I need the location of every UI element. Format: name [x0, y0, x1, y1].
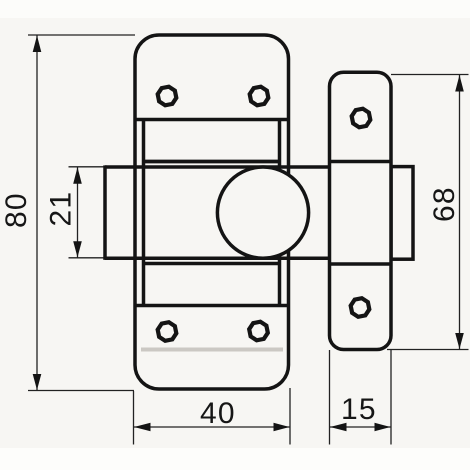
body bottom divider line — [135, 304, 289, 308]
screw hole body bottom-left — [156, 320, 178, 342]
dimension 15 line — [330, 426, 392, 428]
dimension 40 arrow left — [134, 423, 151, 432]
dimension 80 extension line top — [28, 34, 135, 36]
dimension 80 line — [36, 35, 38, 391]
channel rail bottom — [144, 262, 280, 266]
screw hole plate top — [350, 107, 372, 129]
dimension 21 arrow down — [73, 241, 82, 257]
dimension 40 arrow right — [274, 423, 290, 432]
svg-text:40: 40 — [200, 397, 236, 430]
lock body plate — [135, 35, 289, 389]
screw hole plate bottom — [349, 296, 371, 318]
dimension 15 extension line left — [329, 350, 331, 445]
dimension 68 line — [459, 75, 461, 350]
faint pressed band in bottom section — [141, 348, 283, 352]
strike plate rail top — [330, 160, 392, 164]
dimension 68 extension line bottom — [387, 349, 469, 351]
top white strip — [0, 0, 470, 18]
dimension 40 line — [134, 426, 291, 428]
bolt bottom edge — [105, 257, 330, 261]
bolt top edge — [105, 165, 330, 169]
bottom white strip — [0, 448, 470, 470]
dimension 40 extension line left — [133, 391, 135, 445]
strike plate — [330, 72, 392, 349]
dimension 15 arrow right — [375, 423, 391, 432]
dimension 80 extension line bottom — [28, 390, 134, 392]
dimension 80 arrow up — [33, 36, 42, 53]
inner panel left edge — [142, 120, 146, 306]
dimension 68 arrow up — [455, 75, 464, 92]
dimension 21 arrow up — [73, 167, 82, 184]
screw hole body top-right — [248, 85, 270, 107]
body top divider line — [135, 118, 289, 122]
svg-text:68: 68 — [428, 186, 461, 222]
strike plate rail bottom — [330, 262, 392, 266]
knob circle — [217, 167, 308, 258]
dimension 40 extension line right — [289, 388, 291, 445]
dimension 80 arrow down — [33, 374, 42, 390]
dimension 68 arrow down — [455, 333, 464, 349]
inner panel right edge — [278, 120, 282, 306]
bolt left end — [103, 165, 107, 260]
channel rail top redrawn over knob — [144, 160, 280, 164]
dimension 68 extension line top — [391, 74, 469, 76]
keeper box on strike plate — [391, 167, 413, 260]
dimension 15 extension line right — [390, 350, 392, 445]
dimension 15 arrow left — [330, 423, 347, 432]
svg-text:21: 21 — [45, 191, 78, 227]
svg-text:80: 80 — [0, 192, 33, 228]
dimension 21 extension line bottom — [69, 257, 107, 259]
dimension 21 line — [77, 167, 79, 258]
svg-text:15: 15 — [341, 393, 377, 426]
channel rail top — [144, 160, 280, 164]
screw hole body top-left — [156, 85, 178, 107]
dimension 21 extension line top — [69, 166, 107, 168]
screw hole body bottom-right — [247, 320, 269, 342]
